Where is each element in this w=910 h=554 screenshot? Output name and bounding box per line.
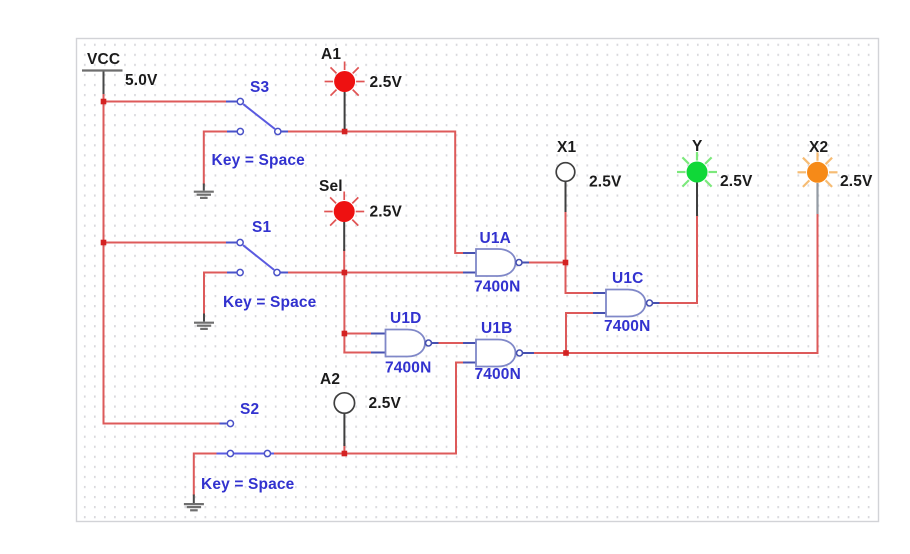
svg-text:U1B: U1B <box>481 320 512 337</box>
NAND gate U1D (7400N) <box>371 310 439 377</box>
wire S3 output to U1A top input (net A) <box>285 132 463 254</box>
svg-text:5.0V: 5.0V <box>125 72 158 89</box>
svg-text:S1: S1 <box>252 219 271 236</box>
svg-text:7400N: 7400N <box>475 366 521 383</box>
svg-text:U1A: U1A <box>480 230 511 247</box>
wire S3 ground branch <box>204 132 227 184</box>
junction VCC/S1 <box>101 240 107 246</box>
wire net VCC to S1 top terminal <box>104 242 227 244</box>
svg-text:X1: X1 <box>557 139 576 156</box>
wire U1A output to X1 junction <box>529 262 566 264</box>
wire U1C output to Y <box>660 215 698 303</box>
wire U1B output junction to U1C bottom input <box>566 313 594 353</box>
junction A2 <box>342 451 348 457</box>
wire net VCC to S3 top terminal <box>104 101 227 103</box>
probe X2 (orange, lit) <box>798 139 873 214</box>
svg-text:X2: X2 <box>809 139 828 156</box>
svg-text:U1D: U1D <box>390 310 421 327</box>
wire S2 ground branch <box>194 454 217 495</box>
svg-text:Key = Space: Key = Space <box>212 152 306 169</box>
wire Sel to U1D bottom input <box>344 352 372 354</box>
svg-text:Key = Space: Key = Space <box>223 294 317 311</box>
NAND gate U1C (7400N) <box>593 270 660 335</box>
svg-text:2.5V: 2.5V <box>589 174 622 191</box>
canvas frame <box>77 39 879 522</box>
probe A1 (red, lit) <box>321 46 402 129</box>
junction X1 / U1A out <box>563 260 569 266</box>
wire U1D output to U1B top input <box>437 342 464 344</box>
wire S1 ground branch <box>204 273 227 314</box>
svg-text:VCC: VCC <box>87 51 120 68</box>
svg-text:A1: A1 <box>321 46 341 63</box>
svg-text:S3: S3 <box>250 79 269 96</box>
wire S1 output Sel net to U1A bottom input <box>285 272 467 274</box>
svg-text:Sel: Sel <box>319 178 343 195</box>
svg-text:Y: Y <box>692 138 703 155</box>
svg-text:7400N: 7400N <box>385 360 431 377</box>
probe X1 (off, white) <box>556 139 622 212</box>
svg-text:S2: S2 <box>240 401 259 418</box>
power VCC <box>82 51 158 89</box>
wire U1B output to X2 <box>530 213 818 353</box>
svg-text:2.5V: 2.5V <box>720 173 753 190</box>
junction U1B out <box>563 350 569 356</box>
svg-text:2.5V: 2.5V <box>370 204 403 221</box>
ground G3 (S2) <box>184 495 204 511</box>
svg-text:2.5V: 2.5V <box>369 395 402 412</box>
svg-text:7400N: 7400N <box>604 318 650 335</box>
probe Y (green, lit) <box>677 138 753 216</box>
wire Sel vertical down to U1D <box>343 273 345 353</box>
svg-text:2.5V: 2.5V <box>370 74 403 91</box>
switch S2 (closed) <box>201 401 295 493</box>
svg-text:U1C: U1C <box>612 270 643 287</box>
svg-text:A2: A2 <box>320 371 340 388</box>
probe A2 (off, white) <box>320 371 401 446</box>
NAND gate U1A (7400N) <box>463 230 529 296</box>
svg-text:2.5V: 2.5V <box>840 173 873 190</box>
probe Sel (red, lit) <box>319 178 402 251</box>
switch S3 <box>212 79 306 169</box>
wire Sel to U1D top input <box>344 333 372 335</box>
NAND gate U1B (7400N) <box>463 320 534 383</box>
wire Sel pin red segment <box>343 250 345 272</box>
svg-text:7400N: 7400N <box>474 279 520 296</box>
junction U1D inputs tie <box>342 331 348 337</box>
wire A2 pin red segment <box>343 444 345 453</box>
junction Sel <box>342 270 348 276</box>
switch S1 <box>223 219 317 311</box>
wire VCC vertical red bus <box>103 95 105 424</box>
ground G2 (S1) <box>194 314 214 329</box>
svg-text:Key = Space: Key = Space <box>201 476 295 493</box>
junction VCC/S3 <box>101 99 107 105</box>
wire net VCC to S2 top terminal <box>104 423 220 425</box>
ground G1 (S3) <box>194 184 214 198</box>
junction A1 <box>342 129 348 135</box>
wire S2 output A2 net <box>274 363 464 454</box>
wire VCC stem (black part) <box>103 71 105 95</box>
wire X1 down to U1C top input <box>566 211 595 293</box>
